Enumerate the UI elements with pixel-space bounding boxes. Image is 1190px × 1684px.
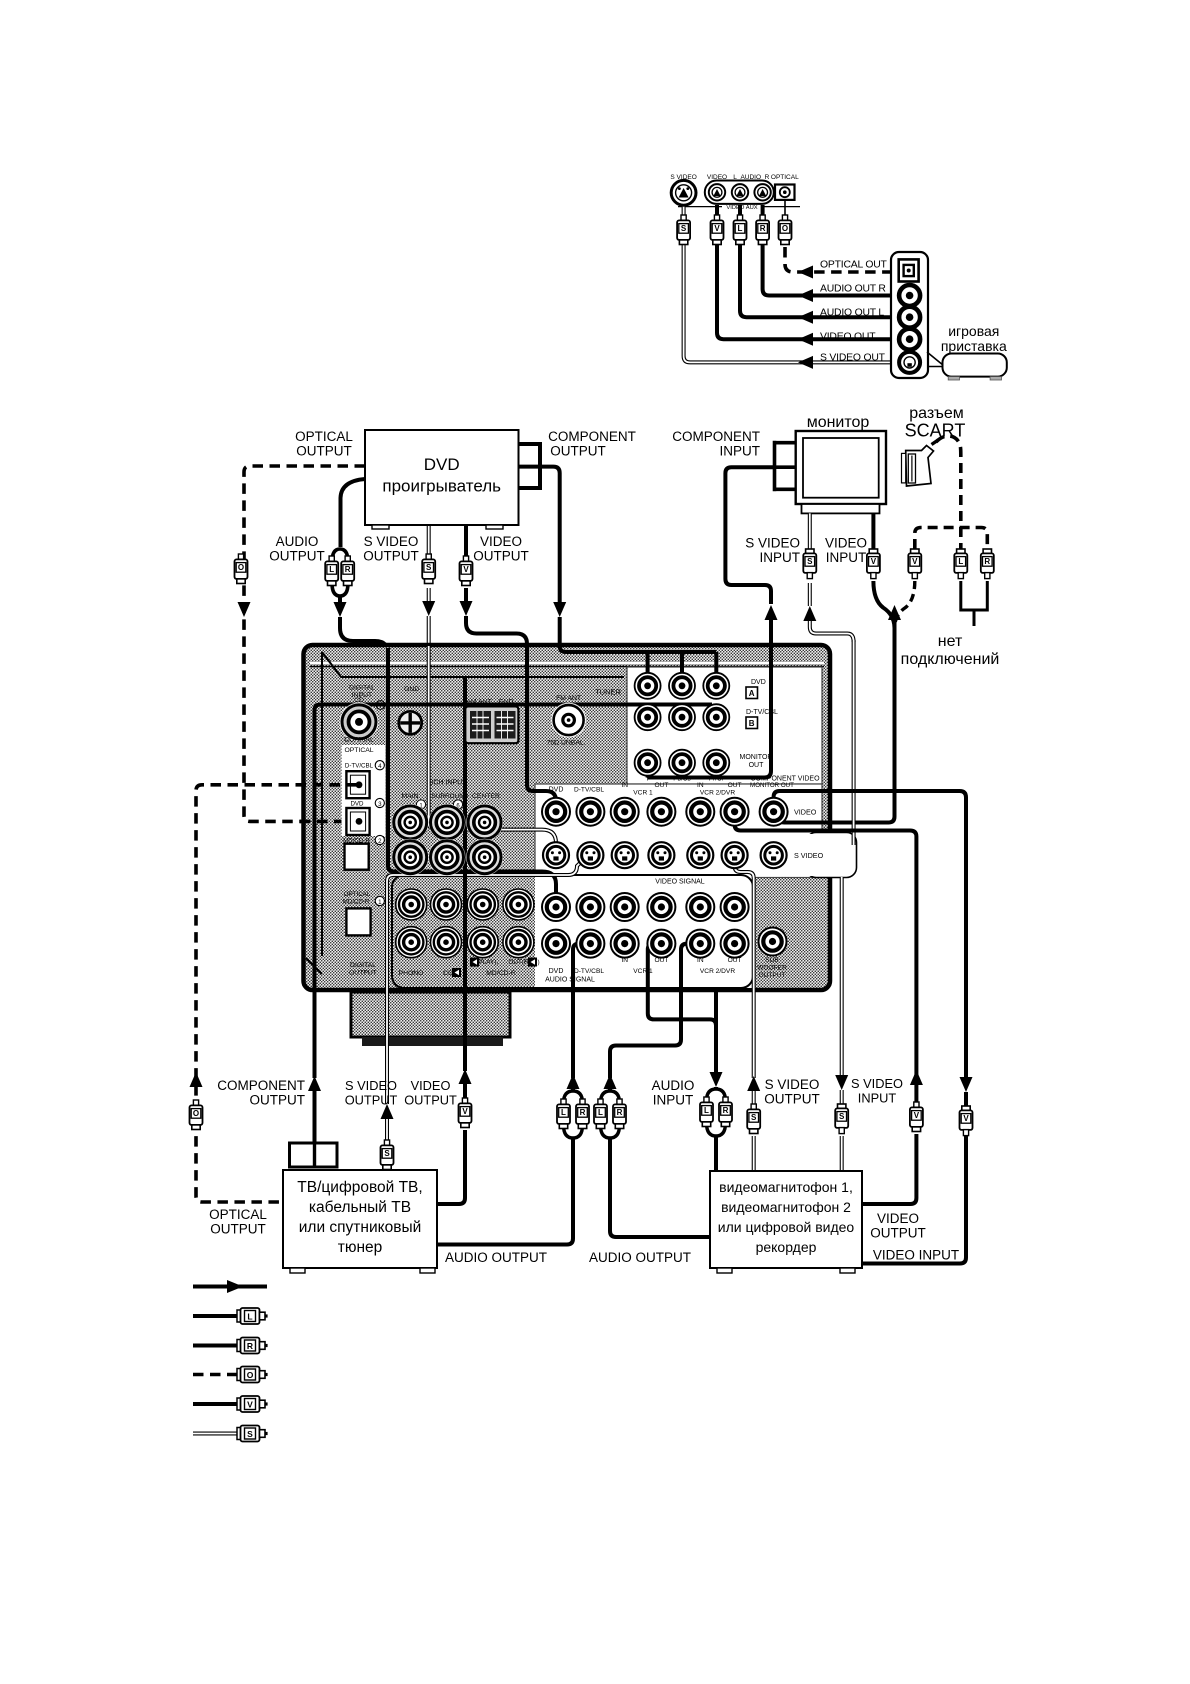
jack audio L col2: [611, 893, 639, 921]
svg-text:CD: CD: [443, 970, 453, 977]
wire DVD audio inside panel: [388, 648, 556, 907]
svg-text:D-TV/CBL: D-TV/CBL: [345, 763, 374, 770]
wire COMPONENT bracket (monitor): [775, 441, 796, 492]
jack component MONITOR OUT 1: [669, 750, 695, 776]
svg-text:INPUT: INPUT: [858, 1091, 897, 1106]
wire TV component inside panel: [315, 705, 713, 991]
video/svideo white region: [535, 784, 822, 878]
wire DVD component fan inside panel: [560, 646, 717, 652]
svg-text:R: R: [984, 557, 990, 566]
svg-text:SUB: SUB: [765, 957, 779, 964]
svg-text:V: V: [912, 557, 918, 566]
svg-text:L: L: [738, 224, 743, 233]
jack audio L col0: [542, 893, 570, 921]
wire VIDEO AUX baseline: [678, 206, 722, 208]
svg-text:S: S: [384, 1149, 390, 1158]
jack 8ch 3: [392, 839, 429, 876]
svg-text:S VIDEO: S VIDEO: [745, 536, 800, 551]
wire VIDEO (DVD): [464, 525, 468, 556]
wire monitor-out video to VCR (W1): [774, 791, 966, 1079]
svg-text:S VIDEO: S VIDEO: [794, 851, 824, 860]
svg-text:SURROUND: SURROUND: [432, 793, 469, 800]
wire DVD audio into panel: [340, 617, 388, 660]
wire OPTICAL dashed TV: [196, 785, 357, 1202]
svg-text:AUDIO OUT L: AUDIO OUT L: [820, 308, 884, 319]
wire TV component below panel: [313, 988, 317, 1078]
jack phono-cd 0: [396, 889, 427, 920]
jack VIDEO front: [709, 184, 725, 200]
jack audio L col1: [576, 893, 604, 921]
svg-text:IN: IN: [621, 782, 628, 789]
svg-text:COMPONENT: COMPONENT: [548, 429, 636, 444]
jack AUDIO OUT L: [899, 307, 920, 328]
svg-text:VIDEO: VIDEO: [794, 808, 817, 817]
svg-text:кабельный ТВ: кабельный ТВ: [309, 1199, 411, 1216]
svg-text:A: A: [749, 689, 755, 698]
svg-text:S VIDEO: S VIDEO: [851, 1076, 903, 1091]
plug S (monitor): [806, 549, 814, 554]
svg-text:L: L: [704, 1106, 709, 1115]
svg-text:ТВ/цифровой ТВ,: ТВ/цифровой ТВ,: [297, 1179, 422, 1196]
svg-text:R: R: [617, 1108, 623, 1117]
jack phono-cd 2: [467, 889, 498, 920]
svg-text:V: V: [914, 1111, 920, 1120]
svg-text:8CH INPUT: 8CH INPUT: [430, 780, 468, 787]
svg-text:COAXIAL: COAXIAL: [344, 737, 374, 744]
jack s-video col1: [577, 842, 603, 868]
wire SCART dashed cable: [936, 436, 961, 549]
svg-text:+: +: [379, 703, 383, 710]
optical strip white: [342, 745, 386, 836]
svg-text:IN: IN: [697, 957, 704, 964]
plug R (aux): [760, 215, 765, 221]
jack s-video col0: [543, 842, 569, 868]
svg-text:V: V: [963, 1114, 969, 1123]
jack AUDIO OUT R: [899, 285, 920, 306]
svg-text:R: R: [760, 224, 766, 233]
svg-text:DVD: DVD: [350, 800, 364, 807]
jack 8ch 0: [392, 804, 429, 841]
wire COMPONENT monitor to receiver: [725, 467, 774, 604]
plug O (TV optical): [193, 1100, 198, 1106]
wire VIDEO monitor: [871, 513, 875, 549]
svg-text:AUDIO: AUDIO: [276, 534, 319, 549]
svg-text:S VIDEO: S VIDEO: [364, 534, 419, 549]
jack component MONITOR OUT 0: [635, 750, 661, 776]
svg-text:B: B: [749, 719, 755, 728]
svg-text:O: O: [193, 1109, 199, 1118]
plug S (VCR out): [751, 1104, 756, 1110]
jack s-video col5: [722, 842, 748, 868]
svg-text:VIDEO SIGNAL: VIDEO SIGNAL: [655, 879, 705, 886]
svg-text:DVD: DVD: [549, 787, 564, 794]
wire OPTICAL dashed (game console): [784, 200, 786, 219]
wire W1 below (VCR video input): [960, 1077, 973, 1092]
wire audio A1 inside: [573, 944, 590, 1078]
SCART connector: [906, 446, 934, 487]
svg-text:IN: IN: [697, 782, 704, 789]
wire audio A2 pair (VCR audio output): [604, 1074, 617, 1089]
svg-text:VIDEO: VIDEO: [480, 534, 522, 549]
jack audio R col4: [686, 930, 714, 958]
jack component DVD 0: [635, 673, 661, 699]
svg-text:L: L: [561, 1108, 566, 1117]
arrow optical down: [238, 602, 251, 617]
svg-text:S: S: [681, 224, 687, 233]
svg-text:AUDIO OUTPUT: AUDIO OUTPUT: [589, 1250, 691, 1265]
svg-text:R: R: [247, 1341, 253, 1351]
svg-text:V: V: [871, 557, 877, 566]
GND screw: [397, 710, 423, 736]
svg-text:3: 3: [378, 801, 382, 808]
component video white region: [627, 667, 822, 784]
jack video col5: [721, 798, 749, 826]
svg-text:VIDEO: VIDEO: [411, 1078, 451, 1093]
svg-text:или цифровой видео: или цифровой видео: [718, 1219, 855, 1235]
svg-text:DIGITAL: DIGITAL: [350, 962, 376, 969]
jack audio R col0: [542, 930, 570, 958]
svg-text:INPUT: INPUT: [826, 550, 867, 565]
svg-text:игровая: игровая: [948, 323, 999, 339]
legend row R: [193, 1344, 240, 1348]
svg-text:4: 4: [378, 763, 382, 770]
svg-text:DVD: DVD: [424, 455, 460, 474]
plug R (scart): [983, 549, 991, 554]
svg-text:DVD: DVD: [549, 968, 564, 975]
game console box: [927, 352, 944, 367]
wire TV s-video below panel: [385, 988, 389, 1104]
svg-text:или спутниковый: или спутниковый: [299, 1219, 422, 1236]
wire dashed split bar: [915, 528, 988, 550]
wire AUDIO L (game console): [740, 205, 898, 317]
wire dashed to scart V plug: [895, 581, 915, 628]
jack FM ANT: [551, 703, 586, 738]
svg-text:OUTPUT: OUTPUT: [473, 549, 529, 564]
svg-text:OUTPUT: OUTPUT: [764, 1092, 820, 1107]
svg-text:VIDEO OUT: VIDEO OUT: [820, 332, 876, 343]
jack audio R col2: [611, 930, 639, 958]
svg-text:GND: GND: [404, 686, 419, 693]
svg-text:MD/CD-R: MD/CD-R: [486, 970, 516, 977]
svg-text:OUTPUT: OUTPUT: [296, 444, 352, 459]
jack component D-TV/CBL 0: [635, 704, 661, 730]
svg-text:S: S: [426, 563, 432, 572]
jack 8ch 4: [429, 839, 466, 876]
svg-text:проигрыватель: проигрыватель: [382, 477, 501, 496]
wire audio A2 inside: [610, 944, 700, 1078]
wire monitor component inside panel: [648, 646, 771, 778]
svg-text:COMPONENT: COMPONENT: [672, 429, 760, 444]
TV box: [283, 1170, 437, 1268]
svg-text:OUT: OUT: [728, 782, 742, 789]
jack 8ch 1: [429, 804, 466, 841]
wire OPTICAL dashed DVD to receiver: [244, 466, 365, 821]
wire AUDIO L/R loop (DVD): [341, 479, 366, 547]
jack phono-cd 3: [503, 889, 534, 920]
svg-text:разъем: разъем: [909, 405, 964, 422]
svg-text:D-TV/CBL: D-TV/CBL: [746, 709, 778, 716]
jack video col4: [686, 798, 714, 826]
jack AUDIO L front: [732, 184, 748, 200]
s-video strip bump: [806, 833, 857, 878]
svg-text:L: L: [247, 1311, 252, 1321]
VCR box: [710, 1171, 862, 1268]
plug L (scart): [957, 549, 965, 554]
svg-text:VCR 2/DVR: VCR 2/DVR: [700, 968, 735, 975]
jack video col2: [611, 798, 639, 826]
svg-text:75Ω UNBAL.: 75Ω UNBAL.: [546, 740, 585, 747]
wire COMPONENT bracket (DVD): [519, 442, 541, 490]
svg-text:OUTPUT: OUTPUT: [250, 1093, 306, 1108]
plug V (monitor): [869, 549, 877, 554]
svg-text:OUTPUT: OUTPUT: [870, 1226, 926, 1241]
jack phono-cd 4: [396, 927, 427, 958]
jack audio L col3: [647, 893, 675, 921]
svg-text:INPUT: INPUT: [720, 444, 761, 459]
wire W2 below (VCR video out): [910, 1070, 923, 1085]
plug S (aux): [681, 215, 686, 221]
jack audio L col5: [721, 893, 749, 921]
svg-text:OPTICAL OUT: OPTICAL OUT: [820, 260, 888, 271]
wire VIDEO (game console): [717, 205, 898, 339]
svg-text:L: L: [329, 565, 334, 574]
wire S VIDEO (game console): [684, 205, 897, 362]
svg-text:AUDIO OUTPUT: AUDIO OUTPUT: [445, 1250, 547, 1265]
jack component MONITOR OUT 2: [703, 750, 729, 776]
svg-text:OUTPUT: OUTPUT: [404, 1093, 457, 1108]
plug O (aux): [782, 215, 787, 221]
wire DVD video inside panel: [527, 646, 556, 812]
svg-text:OUT: OUT: [654, 782, 668, 789]
svg-text:D-TV/CBL: D-TV/CBL: [574, 787, 604, 794]
DVD player box: [365, 430, 519, 525]
svg-text:O: O: [782, 224, 788, 233]
wire VCR s-video out inside (W4): [735, 857, 754, 1078]
svg-text:V: V: [714, 224, 720, 233]
svg-text:OPTICAL: OPTICAL: [771, 174, 799, 181]
plug S (TV): [384, 1140, 389, 1146]
wire audio A1 pair (TV audio output): [567, 1074, 580, 1089]
svg-text:VIDEO AUX: VIDEO AUX: [726, 205, 757, 211]
svg-text:INPUT: INPUT: [653, 1093, 694, 1108]
wire VCR s-video output below: [747, 1076, 760, 1091]
jack phono-cd 7: [503, 927, 534, 958]
svg-text:L: L: [598, 1108, 603, 1117]
svg-text:COMPONENT: COMPONENT: [217, 1078, 305, 1093]
svg-text:подключений: подключений: [901, 651, 1000, 668]
svg-text:S VIDEO OUT: S VIDEO OUT: [820, 353, 886, 364]
svg-text:OUTPUT: OUTPUT: [269, 549, 325, 564]
jack subwoofer: [759, 928, 787, 956]
svg-text:нет: нет: [938, 633, 963, 650]
wire COMPONENT DVD to receiver: [540, 467, 560, 603]
svg-text:MD/CD-R: MD/CD-R: [343, 899, 370, 906]
svg-text:V: V: [247, 1399, 253, 1409]
jack video col1: [576, 798, 604, 826]
svg-text:VIDEO INPUT: VIDEO INPUT: [873, 1248, 959, 1263]
jack OPTICAL OUT: [899, 259, 919, 281]
svg-text:OUT: OUT: [654, 957, 668, 964]
svg-text:DIGITAL: DIGITAL: [349, 685, 375, 692]
svg-text:CENTER: CENTER: [472, 793, 500, 800]
svg-text:V: V: [462, 1107, 468, 1116]
jack video col0: [542, 798, 570, 826]
svg-text:монитор: монитор: [807, 414, 870, 431]
wire TV video below panel: [463, 988, 467, 1071]
svg-text:Pг/Cг: Pг/Cг: [709, 776, 725, 783]
svg-text:MONITOR OUT: MONITOR OUT: [750, 782, 794, 789]
plug V (scart side): [911, 549, 919, 554]
jack s-video col2: [612, 842, 638, 868]
jack phono-cd 6: [467, 927, 498, 958]
svg-text:VCR 1: VCR 1: [633, 968, 653, 975]
jack phono-cd 1: [431, 889, 462, 920]
wire no-connection bracket: [959, 581, 989, 626]
svg-text:R: R: [345, 565, 351, 574]
svg-text:рекордер: рекордер: [756, 1239, 817, 1255]
svg-text:IN: IN: [621, 957, 628, 964]
jack audio R col5: [721, 930, 749, 958]
monitor box: [796, 431, 886, 504]
jack audio L col4: [686, 893, 714, 921]
wire TV s-video inside panel: [387, 857, 586, 988]
label VIDEO AUX: [723, 202, 761, 211]
svg-text:VCR 1: VCR 1: [633, 790, 653, 797]
legend row arrow: [193, 1285, 267, 1289]
plug V (TV): [462, 1098, 467, 1104]
svg-text:видеомагнитофон 2: видеомагнитофон 2: [721, 1199, 851, 1215]
jack AUDIO R front: [754, 184, 770, 200]
jack component D-TV/CBL 2: [703, 704, 729, 730]
TV component bracket: [290, 1143, 338, 1167]
plug L (DVD audio): [329, 556, 334, 562]
plug V (DVD): [463, 556, 468, 562]
svg-text:R: R: [580, 1108, 586, 1117]
svg-text:1: 1: [378, 899, 382, 906]
svg-text:DVD: DVD: [751, 679, 766, 686]
bezel around VIDEO/L/R front jacks: [705, 181, 774, 204]
plug S (DVD): [426, 554, 431, 560]
legend row O dashed: [193, 1373, 240, 1377]
panel bezel lines: [310, 662, 824, 664]
svg-text:Y: Y: [645, 776, 650, 783]
jack video col3: [647, 798, 675, 826]
wire S VIDEO monitor: [808, 513, 812, 549]
svg-text:MAIN: MAIN: [402, 793, 419, 800]
svg-text:2: 2: [378, 838, 382, 845]
jack S VIDEO OUT: [899, 352, 920, 373]
svg-text:OUTPUT: OUTPUT: [349, 970, 377, 977]
svg-text:WOOFER: WOOFER: [757, 965, 787, 972]
phono block outline: [392, 875, 753, 988]
svg-text:VIDEO: VIDEO: [877, 1211, 919, 1226]
jack component DVD 1: [669, 673, 695, 699]
svg-text:OPTICAL: OPTICAL: [295, 429, 353, 444]
svg-text:D-TV/CBL: D-TV/CBL: [574, 968, 604, 975]
wire DVD s-video inside panel: [429, 646, 556, 855]
svg-text:AUDIO: AUDIO: [652, 1078, 695, 1093]
svg-text:S: S: [751, 1113, 757, 1122]
svg-text:VIDEO: VIDEO: [825, 536, 867, 551]
wire monitor s-video into strip: [852, 640, 856, 845]
svg-text:O: O: [247, 1370, 254, 1380]
game console jack panel: [891, 252, 928, 378]
wire A3 straight segment: [714, 988, 718, 1026]
svg-text:AUDIO OUT R: AUDIO OUT R: [820, 284, 886, 295]
jack audio R col1: [576, 930, 604, 958]
svg-text:OUT: OUT: [749, 762, 765, 769]
jack component DVD 2: [703, 673, 729, 699]
svg-text:OPTICAL: OPTICAL: [344, 891, 371, 898]
svg-text:TUNER: TUNER: [595, 688, 621, 697]
svg-text:GND: GND: [498, 699, 513, 706]
wire receiver s-video to VCR below: [840, 877, 844, 1077]
plug O (DVD optical): [238, 554, 243, 560]
svg-text:S: S: [839, 1112, 845, 1121]
svg-text:FM ANT: FM ANT: [556, 695, 581, 702]
wire AUDIO R (game console): [763, 205, 898, 296]
svg-text:OPTICAL: OPTICAL: [344, 747, 373, 754]
plug L (aux): [737, 215, 742, 221]
audio white region: [535, 875, 753, 988]
legend row V: [193, 1402, 240, 1406]
svg-text:PHONO: PHONO: [399, 970, 424, 977]
plug R (DVD audio): [345, 556, 350, 562]
legend row L: [193, 1314, 240, 1318]
receiver rear panel body: [304, 645, 831, 990]
wire audio A3 pair (VCR audio input): [710, 1072, 723, 1087]
plug V (VCR video in): [962, 1106, 970, 1111]
svg-text:S: S: [247, 1429, 253, 1439]
jack CD coaxial: [340, 702, 379, 741]
svg-text:OUTPUT: OUTPUT: [363, 549, 419, 564]
svg-text:OUT: OUT: [728, 957, 742, 964]
svg-text:R: R: [723, 1106, 729, 1115]
legend row S: [193, 1432, 240, 1436]
svg-text:L: L: [958, 557, 963, 566]
plug V (aux): [714, 215, 719, 221]
svg-text:S VIDEO: S VIDEO: [345, 1078, 397, 1093]
svg-text:приставка: приставка: [941, 338, 1007, 354]
jack 8ch 5: [466, 839, 503, 876]
wire dashed optical DVD inside panel: [300, 820, 356, 824]
svg-text:OUTPUT: OUTPUT: [758, 972, 785, 979]
svg-text:S: S: [807, 557, 813, 566]
jack audio R col3: [647, 930, 675, 958]
jack VIDEO OUT: [899, 329, 920, 350]
plug S (VCR in): [838, 1104, 846, 1109]
wire monitor video return: [779, 648, 895, 823]
jack s-video col4: [687, 842, 713, 868]
AM ANT terminal block: [465, 706, 518, 743]
svg-text:VCR 2/DVR: VCR 2/DVR: [700, 790, 735, 797]
svg-text:O: O: [238, 563, 244, 572]
svg-text:AM ANT: AM ANT: [466, 699, 491, 706]
jack phono-cd 5: [431, 927, 462, 958]
svg-text:тюнер: тюнер: [338, 1239, 383, 1256]
jack component D-TV/CBL 1: [669, 704, 695, 730]
jack OPTICAL front: [775, 185, 795, 200]
wire VCR video-out to receiver (W2): [735, 812, 917, 1076]
svg-text:INPUT: INPUT: [760, 550, 801, 565]
svg-text:OUTPUT: OUTPUT: [345, 1093, 398, 1108]
svg-text:OUTPUT: OUTPUT: [210, 1222, 266, 1237]
svg-text:Pв/Cв: Pв/Cв: [673, 776, 691, 783]
wire S VIDEO (DVD): [427, 525, 431, 554]
svg-text:V: V: [463, 565, 469, 574]
receiver bottom step: [351, 992, 510, 1037]
svg-text:OPTICAL: OPTICAL: [209, 1207, 267, 1222]
